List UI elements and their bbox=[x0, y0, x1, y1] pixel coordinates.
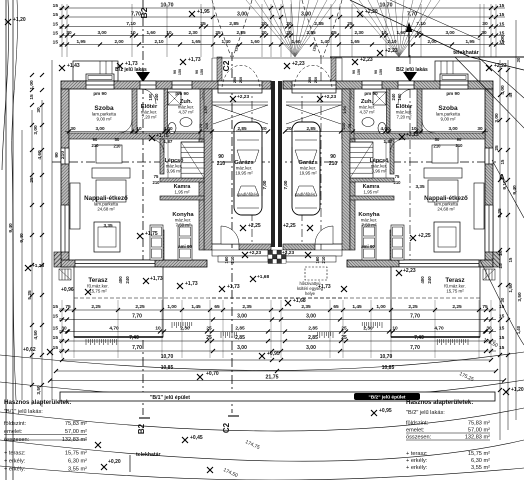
kitchen counter bbox=[178, 225, 192, 260]
svg-text:+1,73: +1,73 bbox=[185, 281, 198, 287]
svg-text:100: 100 bbox=[148, 93, 153, 101]
svg-text:2,30: 2,30 bbox=[354, 30, 364, 35]
svg-text:1,60: 1,60 bbox=[291, 39, 301, 44]
svg-text:210: 210 bbox=[341, 122, 346, 129]
svg-text:3,00: 3,00 bbox=[301, 12, 311, 18]
svg-text:15,75 m²: 15,75 m² bbox=[65, 451, 87, 457]
epulet bar bbox=[60, 392, 495, 401]
slope arrow right driveway bbox=[408, 28, 410, 57]
svg-text:+2,25: +2,25 bbox=[418, 233, 431, 239]
wall: bottom exterior bbox=[61, 260, 207, 267]
svg-text:3,00: 3,00 bbox=[95, 126, 105, 131]
svg-text:+2,23: +2,23 bbox=[292, 61, 305, 67]
svg-text:150: 150 bbox=[178, 69, 182, 75]
svg-text:7,50 m²: 7,50 m² bbox=[176, 223, 191, 228]
svg-text:260: 260 bbox=[314, 77, 318, 83]
svg-text:2,30: 2,30 bbox=[363, 325, 373, 331]
chimney block outside left wall bbox=[54, 252, 61, 267]
svg-text:+ erkély:: + erkély: bbox=[406, 458, 428, 464]
svg-text:Hasznos alapterületek:: Hasznos alapterületek: bbox=[4, 399, 71, 406]
svg-text:7,40: 7,40 bbox=[414, 335, 424, 341]
svg-text:pm 90: pm 90 bbox=[175, 91, 189, 96]
svg-text:1,00: 1,00 bbox=[500, 35, 506, 45]
svg-text:25: 25 bbox=[29, 177, 35, 183]
top dimension rows bbox=[62, 7, 505, 9]
svg-text:30: 30 bbox=[36, 107, 42, 113]
terrace slab bbox=[74, 267, 163, 337]
svg-text:+0,95: +0,95 bbox=[379, 408, 392, 414]
svg-text:25: 25 bbox=[331, 30, 337, 35]
svg-text:ami 90: ami 90 bbox=[361, 244, 375, 249]
svg-text:+2,23: +2,23 bbox=[324, 94, 336, 100]
svg-text:helye: helye bbox=[305, 291, 316, 296]
telekhatar top line bbox=[330, 56, 524, 58]
svg-text:210: 210 bbox=[456, 143, 464, 148]
svg-text:+1,20: +1,20 bbox=[511, 387, 524, 393]
svg-text:+2,25: +2,25 bbox=[248, 223, 261, 229]
svg-text:25: 25 bbox=[206, 335, 212, 341]
svg-text:10,70: 10,70 bbox=[380, 354, 393, 360]
central checker steps bbox=[268, 250, 273, 255]
svg-text:15: 15 bbox=[53, 345, 59, 351]
svg-text:10: 10 bbox=[392, 325, 398, 331]
garage axis dash-dot right bbox=[301, 85, 303, 258]
svg-text:15: 15 bbox=[53, 21, 59, 27]
svg-text:3,96 m²: 3,96 m² bbox=[372, 169, 387, 174]
svg-text:15: 15 bbox=[53, 325, 59, 331]
svg-text:20: 20 bbox=[261, 30, 267, 35]
svg-text:19,95 m²: 19,95 m² bbox=[235, 171, 253, 176]
svg-text:3,35: 3,35 bbox=[103, 223, 113, 228]
svg-text:padlófűtés: padlófűtés bbox=[295, 192, 316, 197]
svg-text:75: 75 bbox=[347, 123, 352, 128]
svg-text:+1,73: +1,73 bbox=[188, 57, 201, 63]
door: entrance 100/240 bbox=[140, 81, 156, 89]
svg-text:3,00: 3,00 bbox=[97, 30, 107, 35]
svg-text:7,00: 7,00 bbox=[283, 180, 288, 189]
svg-text:B2: B2 bbox=[137, 423, 146, 434]
svg-text:15,75 m²: 15,75 m² bbox=[89, 289, 107, 294]
axis line A horizontal bbox=[52, 161, 496, 163]
svg-text:+ erkély:: + erkély: bbox=[4, 467, 26, 473]
svg-text:+1,43: +1,43 bbox=[67, 63, 80, 69]
svg-text:"B/2" jelű lakás:: "B/2" jelű lakás: bbox=[406, 410, 445, 416]
svg-text:210: 210 bbox=[230, 256, 235, 264]
svg-text:4,00: 4,00 bbox=[380, 126, 390, 131]
svg-text:160: 160 bbox=[315, 256, 320, 264]
ramp dashed curves right bbox=[302, 0, 321, 57]
svg-text:C2: C2 bbox=[221, 60, 231, 71]
svg-text:+2,20: +2,20 bbox=[365, 9, 378, 15]
stairs Lepcso bbox=[181, 142, 204, 178]
svg-text:210: 210 bbox=[114, 144, 122, 149]
svg-text:15: 15 bbox=[508, 257, 513, 262]
svg-text:+1,28: +1,28 bbox=[32, 263, 44, 269]
window: Zuh front pm90 bbox=[172, 81, 192, 89]
left unit geometry bbox=[54, 65, 345, 345]
wall: nappali/kitchen partial bbox=[160, 139, 164, 174]
heat pump unit bbox=[305, 267, 327, 280]
svg-text:4,70: 4,70 bbox=[434, 325, 444, 331]
grass hatch clusters bbox=[85, 339, 87, 345]
svg-text:210: 210 bbox=[434, 144, 442, 149]
svg-text:75,83 m²: 75,83 m² bbox=[468, 421, 490, 427]
svg-text:75: 75 bbox=[198, 123, 203, 128]
svg-text:90: 90 bbox=[218, 154, 224, 160]
garage door leaf bbox=[218, 89, 262, 93]
svg-text:3,00: 3,00 bbox=[306, 345, 316, 351]
svg-text:15: 15 bbox=[499, 3, 505, 9]
svg-text:2,85: 2,85 bbox=[308, 335, 318, 341]
section marker C2 bottom bbox=[228, 415, 239, 417]
svg-text:3,55 m²: 3,55 m² bbox=[471, 465, 490, 471]
svg-text:2,25: 2,25 bbox=[452, 304, 462, 310]
svg-text:"B/1" jelű lakás:: "B/1" jelű lakás: bbox=[4, 409, 43, 415]
svg-text:+2,23: +2,23 bbox=[360, 57, 373, 63]
sofa set bbox=[70, 183, 80, 229]
svg-text:7,50 m²: 7,50 m² bbox=[362, 223, 377, 228]
svg-text:7,70: 7,70 bbox=[131, 12, 141, 18]
svg-text:75: 75 bbox=[65, 304, 71, 310]
svg-text:240: 240 bbox=[391, 93, 396, 101]
svg-text:+1,73: +1,73 bbox=[150, 276, 163, 282]
svg-text:7,20 m²: 7,20 m² bbox=[142, 115, 157, 120]
svg-text:240: 240 bbox=[427, 276, 432, 284]
svg-text:15: 15 bbox=[53, 3, 59, 9]
svg-text:telekhatár: telekhatár bbox=[136, 452, 161, 458]
shower + wc bbox=[168, 92, 181, 105]
svg-text:45: 45 bbox=[508, 92, 513, 97]
svg-text:"B/2" jelű épület: "B/2" jelű épület bbox=[368, 395, 405, 401]
svg-text:6,30 m²: 6,30 m² bbox=[68, 459, 87, 465]
section line B2 bbox=[142, 0, 144, 415]
svg-text:250: 250 bbox=[308, 77, 312, 83]
svg-text:15: 15 bbox=[53, 313, 59, 319]
svg-text:+0,45: +0,45 bbox=[190, 435, 203, 441]
svg-text:1,00: 1,00 bbox=[167, 304, 177, 310]
svg-text:3,00: 3,00 bbox=[237, 345, 247, 351]
garage door cross marking bbox=[213, 105, 268, 124]
svg-text:3,50: 3,50 bbox=[517, 292, 523, 302]
left vertical dimension chain bbox=[21, 130, 23, 400]
svg-text:+2,23: +2,23 bbox=[237, 94, 249, 100]
svg-text:1,87: 1,87 bbox=[164, 139, 173, 144]
svg-text:2,85: 2,85 bbox=[306, 126, 316, 131]
svg-text:+0,70: +0,70 bbox=[206, 371, 219, 377]
svg-text:+1,75: +1,75 bbox=[145, 231, 158, 237]
svg-text:+ erkély:: + erkély: bbox=[406, 465, 428, 471]
svg-text:10: 10 bbox=[166, 30, 172, 35]
svg-text:+1,68: +1,68 bbox=[293, 298, 306, 304]
svg-text:2,00: 2,00 bbox=[427, 39, 437, 44]
svg-text:pm 90: pm 90 bbox=[364, 91, 378, 96]
svg-text:2,85: 2,85 bbox=[306, 30, 316, 35]
svg-text:1,60: 1,60 bbox=[396, 30, 406, 35]
svg-text:7,70: 7,70 bbox=[132, 345, 142, 351]
svg-text:132,83 m²: 132,83 m² bbox=[465, 435, 490, 441]
right vertical dimension chain bbox=[499, 60, 501, 440]
wall: Szoba/Eloter bbox=[132, 89, 137, 133]
bottom dimension rows bbox=[62, 309, 496, 311]
wall: kamra divider bbox=[160, 178, 204, 182]
svg-text:30: 30 bbox=[516, 57, 521, 62]
svg-text:57,00 m²: 57,00 m² bbox=[65, 429, 87, 435]
svg-text:+1,95: +1,95 bbox=[197, 9, 210, 15]
svg-text:Hasznos alapterületek:: Hasznos alapterületek: bbox=[406, 399, 473, 406]
svg-text:15: 15 bbox=[499, 21, 505, 27]
svg-text:100: 100 bbox=[397, 93, 402, 101]
svg-text:4,00: 4,00 bbox=[500, 85, 506, 95]
svg-text:7,10: 7,10 bbox=[126, 21, 136, 27]
svg-text:4,37 m²: 4,37 m² bbox=[179, 110, 194, 115]
svg-text:4,00: 4,00 bbox=[163, 126, 173, 131]
svg-text:7,70: 7,70 bbox=[410, 345, 420, 351]
wall: top exterior bbox=[61, 81, 271, 89]
svg-text:3,00: 3,00 bbox=[448, 126, 458, 131]
svg-text:3,96 m²: 3,96 m² bbox=[167, 169, 182, 174]
svg-text:240: 240 bbox=[154, 93, 159, 101]
svg-text:telekhatár: telekhatár bbox=[453, 50, 479, 56]
svg-text:+0,96: +0,96 bbox=[61, 287, 74, 293]
svg-text:+1,73: +1,73 bbox=[227, 284, 240, 290]
axis line mirror of C2 bbox=[320, 55, 322, 260]
svg-text:240: 240 bbox=[125, 276, 130, 284]
svg-text:15,75 m²: 15,75 m² bbox=[468, 451, 490, 457]
svg-text:210: 210 bbox=[92, 143, 100, 148]
svg-text:65: 65 bbox=[214, 304, 220, 310]
svg-text:9,40: 9,40 bbox=[8, 223, 14, 233]
svg-text:5,25: 5,25 bbox=[497, 208, 503, 218]
svg-text:75: 75 bbox=[154, 174, 159, 179]
svg-text:+ terasz:: + terasz: bbox=[406, 451, 428, 457]
svg-text:150: 150 bbox=[357, 69, 361, 75]
svg-text:1,95: 1,95 bbox=[465, 39, 475, 44]
svg-text:50: 50 bbox=[115, 137, 120, 142]
back door steps bbox=[212, 250, 268, 256]
svg-text:10,85: 10,85 bbox=[382, 365, 395, 371]
garage door swing dashed arc bbox=[222, 65, 260, 87]
svg-text:90: 90 bbox=[352, 70, 356, 74]
svg-text:7,70: 7,70 bbox=[132, 313, 142, 319]
svg-text:25: 25 bbox=[215, 30, 221, 35]
svg-text:400: 400 bbox=[420, 276, 425, 284]
svg-text:2,30: 2,30 bbox=[188, 30, 198, 35]
svg-text:15: 15 bbox=[29, 94, 35, 100]
svg-text:3,00: 3,00 bbox=[445, 30, 455, 35]
svg-text:2,25: 2,25 bbox=[135, 304, 145, 310]
svg-text:+2,23: +2,23 bbox=[385, 48, 398, 54]
party wall center bbox=[271, 81, 282, 247]
svg-text:2,35: 2,35 bbox=[301, 304, 311, 310]
svg-text:2,00: 2,00 bbox=[114, 39, 124, 44]
svg-text:3,35: 3,35 bbox=[415, 184, 425, 189]
svg-text:15,75 m²: 15,75 m² bbox=[446, 289, 464, 294]
svg-text:15: 15 bbox=[500, 159, 505, 164]
svg-text:260: 260 bbox=[239, 77, 243, 83]
svg-text:6,30 m²: 6,30 m² bbox=[471, 458, 490, 464]
svg-text:+2,23: +2,23 bbox=[403, 268, 416, 274]
slope fan right driveway bbox=[350, 0, 440, 57]
wall: left exterior bbox=[61, 89, 69, 267]
svg-text:50: 50 bbox=[435, 137, 440, 142]
svg-text:90: 90 bbox=[173, 70, 177, 74]
svg-text:10: 10 bbox=[411, 126, 417, 131]
wall: garage bottom bbox=[239, 244, 271, 250]
svg-text:+1,20: +1,20 bbox=[13, 17, 26, 23]
wall: kitchen/stair column right bbox=[199, 139, 204, 250]
svg-text:1,90: 1,90 bbox=[203, 105, 208, 114]
svg-text:90: 90 bbox=[54, 152, 60, 158]
svg-text:21,75: 21,75 bbox=[266, 374, 279, 380]
svg-text:1,95 m²: 1,95 m² bbox=[175, 190, 190, 195]
svg-text:1,95: 1,95 bbox=[76, 39, 86, 44]
svg-text:+1,73: +1,73 bbox=[318, 284, 331, 290]
svg-text:2,85: 2,85 bbox=[308, 325, 318, 331]
door swing Eloter->Szoba bbox=[119, 120, 132, 133]
section line C2 bbox=[231, 52, 233, 413]
svg-text:1,45: 1,45 bbox=[352, 304, 362, 310]
entrance porch B/2 bbox=[435, 61, 480, 81]
svg-text:25: 25 bbox=[494, 145, 500, 151]
svg-text:15: 15 bbox=[53, 12, 59, 18]
svg-text:150: 150 bbox=[200, 69, 204, 75]
entrance arrow B/1 bbox=[136, 72, 150, 82]
svg-text:2,85: 2,85 bbox=[237, 126, 247, 131]
svg-text:30: 30 bbox=[482, 21, 488, 27]
svg-text:padlófűtés: padlófűtés bbox=[238, 192, 259, 197]
svg-text:2,25: 2,25 bbox=[408, 304, 418, 310]
entrance arrow B/2 bbox=[403, 72, 417, 82]
interior dimension row y128 bbox=[65, 131, 268, 133]
window: Szoba front pm90 bbox=[86, 81, 114, 89]
svg-text:20: 20 bbox=[261, 126, 267, 131]
svg-text:1,60: 1,60 bbox=[250, 39, 260, 44]
svg-text:4,50: 4,50 bbox=[33, 330, 39, 340]
svg-text:1,00: 1,00 bbox=[376, 304, 386, 310]
door swing Nappali bbox=[150, 139, 164, 153]
svg-text:7,70: 7,70 bbox=[410, 313, 420, 319]
axis line mirror of B2 bbox=[409, 55, 411, 260]
svg-text:3,00: 3,00 bbox=[306, 313, 316, 319]
svg-text:+0,95: +0,95 bbox=[267, 351, 280, 357]
svg-text:75: 75 bbox=[482, 304, 488, 310]
svg-text:3,55 m²: 3,55 m² bbox=[68, 467, 87, 473]
garage door opening bbox=[218, 81, 262, 89]
svg-text:1,40: 1,40 bbox=[320, 39, 330, 44]
svg-text:2,10: 2,10 bbox=[154, 39, 164, 44]
svg-text:210: 210 bbox=[329, 161, 338, 167]
svg-text:1,65: 1,65 bbox=[191, 39, 201, 44]
wall: Zuh/Garage upper bbox=[200, 89, 212, 139]
svg-text:7,40: 7,40 bbox=[129, 335, 139, 341]
slope fan left driveway bbox=[246, 0, 336, 57]
svg-text:2,85: 2,85 bbox=[235, 335, 245, 341]
svg-text:1,45: 1,45 bbox=[191, 304, 201, 310]
svg-text:2,35: 2,35 bbox=[242, 304, 252, 310]
svg-text:9,00 m²: 9,00 m² bbox=[441, 117, 456, 122]
telekhatar diagonal top-right bbox=[350, 0, 524, 70]
svg-text:+ terasz:: + terasz: bbox=[4, 451, 26, 457]
svg-text:1,90: 1,90 bbox=[342, 105, 347, 114]
svg-text:1,40: 1,40 bbox=[221, 39, 231, 44]
door garage back bbox=[221, 226, 239, 244]
contour line top-left bbox=[2, 0, 9, 170]
svg-text:pm 90: pm 90 bbox=[93, 91, 107, 96]
svg-text:90: 90 bbox=[330, 154, 336, 160]
svg-text:+2,23: +2,23 bbox=[282, 250, 294, 256]
svg-text:15: 15 bbox=[53, 39, 59, 45]
svg-text:9,00 m²: 9,00 m² bbox=[97, 117, 112, 122]
svg-text:"B/1" jelű épület: "B/1" jelű épület bbox=[150, 395, 190, 401]
svg-text:1,95 m²: 1,95 m² bbox=[364, 190, 379, 195]
svg-text:210: 210 bbox=[217, 161, 226, 167]
svg-text:+2,25: +2,25 bbox=[283, 223, 296, 229]
svg-text:2,85: 2,85 bbox=[314, 21, 324, 27]
svg-text:ami 90: ami 90 bbox=[178, 244, 192, 249]
svg-text:210: 210 bbox=[60, 151, 66, 159]
svg-text:30: 30 bbox=[66, 30, 72, 35]
svg-text:75: 75 bbox=[395, 174, 400, 179]
svg-text:10: 10 bbox=[136, 126, 142, 131]
svg-text:75,83 m²: 75,83 m² bbox=[65, 421, 87, 427]
svg-text:20: 20 bbox=[286, 126, 292, 131]
svg-text:1,60: 1,60 bbox=[146, 30, 156, 35]
svg-text:földszint:: földszint: bbox=[4, 421, 27, 427]
svg-text:7,20 m²: 7,20 m² bbox=[397, 115, 412, 120]
svg-text:2,85: 2,85 bbox=[235, 325, 245, 331]
svg-text:4,37 m²: 4,37 m² bbox=[360, 110, 375, 115]
svg-text:10: 10 bbox=[130, 30, 136, 35]
svg-text:400: 400 bbox=[118, 276, 123, 284]
svg-text:15: 15 bbox=[499, 12, 505, 18]
svg-text:9,40: 9,40 bbox=[512, 185, 518, 195]
svg-text:+2,25: +2,25 bbox=[406, 132, 419, 138]
svg-text:10: 10 bbox=[155, 325, 161, 331]
ramp dashed curves left bbox=[212, 0, 231, 57]
section marker B2 bottom bbox=[139, 417, 150, 419]
svg-text:4,70: 4,70 bbox=[109, 325, 119, 331]
svg-text:90: 90 bbox=[374, 70, 378, 74]
svg-text:1,87: 1,87 bbox=[384, 139, 393, 144]
svg-text:2,25: 2,25 bbox=[91, 304, 101, 310]
svg-text:+2,23: +2,23 bbox=[249, 250, 261, 256]
wall: garage left bbox=[204, 89, 212, 250]
svg-text:2,10: 2,10 bbox=[387, 39, 397, 44]
svg-text:3,00: 3,00 bbox=[237, 12, 247, 18]
svg-text:emelet:: emelet: bbox=[4, 429, 23, 435]
svg-text:+1,68: +1,68 bbox=[257, 274, 269, 280]
terrace sliding door 400/240 bbox=[75, 260, 155, 267]
garage aprons bbox=[211, 58, 213, 81]
door swing entrance bbox=[141, 89, 156, 104]
svg-text:3,00: 3,00 bbox=[237, 313, 247, 319]
svg-text:250: 250 bbox=[233, 77, 237, 83]
car in garage bbox=[234, 122, 262, 215]
garage apron side walls bbox=[217, 57, 222, 81]
wall: Eloter/Zuh bbox=[164, 89, 168, 133]
window: left wall small bbox=[61, 148, 69, 164]
dining table bbox=[94, 222, 120, 252]
svg-text:15: 15 bbox=[53, 304, 59, 310]
svg-text:65: 65 bbox=[333, 304, 339, 310]
svg-text:90: 90 bbox=[93, 137, 98, 142]
top band extension lines bbox=[62, 4, 496, 57]
left band ticks bbox=[30, 73, 34, 77]
svg-text:90: 90 bbox=[457, 137, 462, 142]
svg-text:pm 90: pm 90 bbox=[446, 91, 460, 96]
wall: interior horizontal below Szoba bbox=[69, 133, 212, 139]
svg-text:2,85: 2,85 bbox=[236, 30, 246, 35]
